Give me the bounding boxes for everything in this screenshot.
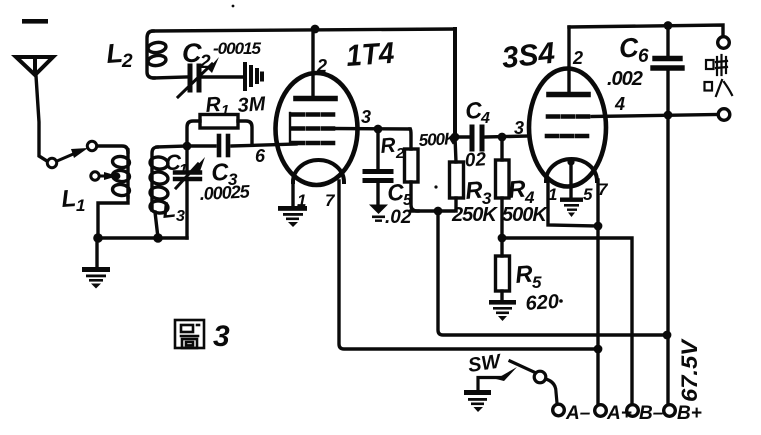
- V2 filament dome: [546, 159, 597, 181]
- svg-text:3: 3: [213, 320, 230, 353]
- svg-text:500K: 500K: [502, 204, 548, 226]
- label pin 2 of V2: [572, 48, 583, 68]
- switch S1 arm with arrowhead: [57, 152, 78, 161]
- svg-text:4: 4: [480, 110, 490, 127]
- label pin 3: [361, 107, 371, 127]
- switch SW arm: [510, 361, 534, 372]
- node R4/R5 junction: [498, 234, 507, 243]
- label C4: [464, 97, 490, 127]
- wire rail corner down to C4 node: [453, 29, 457, 135]
- svg-text:R: R: [379, 134, 397, 158]
- label SW: [467, 350, 504, 377]
- V1 internal grid tie: [289, 113, 291, 144]
- svg-text:6: 6: [255, 146, 266, 166]
- label L3: [161, 197, 185, 225]
- node C6 top junction: [664, 21, 673, 30]
- label C5 value .02: [385, 207, 412, 228]
- wire SW to A- terminal: [546, 379, 557, 403]
- switch SW fixed contact arrow: [496, 367, 517, 381]
- svg-text:1: 1: [179, 161, 187, 178]
- svg-text:5: 5: [532, 273, 542, 292]
- svg-text:3M: 3M: [237, 93, 268, 117]
- label 67.5V: [677, 338, 702, 402]
- label C3 value .00025: [199, 181, 251, 204]
- svg-text:2: 2: [121, 51, 133, 72]
- terminal B-: [627, 405, 639, 417]
- svg-text:A+: A+: [606, 403, 632, 424]
- svg-text:B–: B–: [639, 403, 664, 424]
- V2 grid dashes row: [547, 134, 588, 139]
- wire bias bus down and right to B+ node: [438, 211, 667, 335]
- ground V2 pin5: [560, 198, 583, 218]
- terminal A-: [553, 404, 565, 416]
- V1 grid dashes row1: [293, 112, 333, 117]
- loudspeaker glyph (喇叭): [705, 55, 733, 96]
- resistor R3: [450, 137, 464, 211]
- resistor R4: [496, 137, 510, 238]
- wire C1 arrow: [176, 164, 198, 188]
- svg-text:1T4: 1T4: [345, 37, 395, 73]
- terminal phone bottom: [718, 109, 730, 121]
- node A+ / filament junction: [594, 345, 603, 354]
- svg-text:C: C: [182, 38, 202, 68]
- wire L1 bottom to ground bus: [98, 197, 128, 238]
- label C1: [165, 150, 187, 178]
- wire V1 pin1 lead: [291, 181, 294, 206]
- wire V1 pin3 (row2) to node 3: [333, 127, 410, 131]
- label R2: [379, 134, 405, 162]
- wire top-right rail (V2 plate to phones): [569, 25, 723, 36]
- ground (sideways) after C2: [245, 64, 262, 89]
- V2 plate bar: [549, 92, 588, 98]
- V1 grid dashes row3: [293, 141, 333, 146]
- svg-text:.00025: .00025: [199, 181, 251, 204]
- svg-text:B+: B+: [677, 403, 702, 424]
- label C5: [386, 179, 413, 209]
- V2 screen dashes row: [548, 114, 592, 119]
- resistor R2: [405, 129, 419, 211]
- wire grid junction to C3: [187, 144, 215, 147]
- svg-text:3: 3: [361, 107, 371, 127]
- V1 filament dome: [293, 160, 344, 182]
- svg-text:-00015: -00015: [213, 39, 261, 58]
- node C6 bottom junction: [664, 111, 673, 120]
- label L2: [105, 38, 133, 72]
- wire ground bus drop: [95, 238, 98, 267]
- labels pins 1 7 of V1: [297, 191, 336, 210]
- wire C4 node to plates: [455, 135, 469, 138]
- svg-text:1: 1: [76, 196, 85, 215]
- wire V2 pin4 screen line to phone bottom: [592, 115, 718, 117]
- node C4 right junction: [498, 133, 507, 142]
- svg-text:3S4: 3S4: [500, 37, 556, 75]
- node grid junction: [183, 142, 192, 151]
- svg-text:2: 2: [572, 48, 583, 68]
- terminal B+: [664, 405, 676, 417]
- wire L2 bottom to C2: [154, 77, 186, 78]
- svg-text:3: 3: [514, 118, 524, 138]
- wire C4 to V2 grid: [486, 136, 529, 137]
- wire R2 bottom to R3 bottom: [411, 209, 453, 212]
- capacitor C1 (variable tuning): [185, 146, 188, 170]
- labels battery terminals: [565, 403, 702, 424]
- wire antenna stem: [36, 76, 47, 161]
- label 1T4: [345, 37, 395, 73]
- svg-text:2: 2: [395, 145, 405, 162]
- label R4: [507, 176, 535, 207]
- svg-text:L: L: [161, 197, 177, 223]
- labels pins 1 5 7 of V2: [548, 180, 609, 204]
- label pin 2: [316, 56, 327, 76]
- capacitor C4: [472, 127, 482, 149]
- terminal A+: [595, 405, 607, 417]
- node L3 ground junction: [153, 233, 163, 243]
- resistor R1: [187, 115, 252, 146]
- svg-text:2: 2: [199, 52, 211, 73]
- label C3: [210, 159, 238, 189]
- switch SW pivot circle: [534, 371, 546, 383]
- svg-text:SW: SW: [467, 350, 504, 377]
- switch S1 contact circles: [47, 141, 96, 167]
- capacitor C2 (variable): [190, 66, 199, 90]
- svg-text:.02: .02: [385, 207, 412, 228]
- svg-text:1: 1: [221, 102, 229, 119]
- svg-text:R: R: [205, 93, 223, 117]
- svg-text:.002: .002: [607, 68, 643, 90]
- node plate rail to V1 pin2 junction: [311, 25, 320, 34]
- wire junction to B- corner: [502, 238, 632, 404]
- svg-text:250K: 250K: [451, 204, 498, 226]
- wire B+ vertical: [666, 115, 669, 404]
- wire C3 to V1 pin6: [232, 144, 296, 146]
- capacitor C3: [219, 136, 228, 155]
- ground C5: [369, 205, 388, 222]
- wire top-left plate rail: [153, 29, 455, 31]
- wire switch to L1 top: [97, 146, 128, 152]
- coil L2: [147, 31, 167, 78]
- svg-text:7: 7: [325, 191, 336, 210]
- label L1: [61, 185, 86, 215]
- ground main (left): [82, 267, 110, 289]
- label pin 3 of V2: [514, 118, 524, 138]
- svg-text:6: 6: [638, 46, 649, 67]
- ground V1 pin1: [278, 206, 307, 227]
- label C6 value .002: [607, 68, 643, 90]
- svg-text:2: 2: [316, 56, 327, 76]
- label R5: [514, 261, 542, 292]
- stray scan mark top-left: [22, 19, 48, 24]
- wire V2 pin5 filament center tap: [569, 161, 572, 198]
- capacitor C6: [666, 26, 669, 56]
- node bias bus junction: [434, 207, 443, 216]
- svg-text:67.5V: 67.5V: [677, 338, 702, 402]
- label R3 value 250K: [451, 204, 498, 226]
- label pin 6: [255, 146, 266, 166]
- wire tuned-circuit top (L3 to grid junction to C3): [157, 146, 187, 147]
- wire C2 arrow: [178, 64, 212, 97]
- wire L3 bottom lead: [155, 212, 158, 238]
- node L1 ground junction: [93, 233, 103, 243]
- wire V2 pin7 filament leg down to A+: [596, 180, 599, 404]
- svg-text:A–: A–: [565, 403, 591, 424]
- label R5 value 620: [525, 291, 560, 315]
- label R4 value 500K: [502, 204, 548, 226]
- coil L1: [112, 150, 130, 197]
- resistor R5: [496, 238, 510, 301]
- label C2: [182, 38, 211, 73]
- wire C2 to side ground: [203, 75, 243, 78]
- svg-text:5: 5: [583, 185, 593, 204]
- label pin 4 of V2: [614, 94, 625, 114]
- node 3 junction: [374, 125, 383, 134]
- wire ground bus bottom-left: [98, 236, 187, 239]
- coil L3: [149, 147, 168, 214]
- switch L1 tap (circle and arrow): [91, 172, 106, 180]
- vacuum tube V2 3S4 envelope: [529, 69, 606, 187]
- svg-text:1: 1: [297, 191, 306, 210]
- node C4 left junction: [451, 133, 460, 142]
- wire V1 pin2 drop: [311, 29, 314, 97]
- wire V2 pin2 drop from right rail: [567, 27, 570, 94]
- ground SW: [464, 390, 491, 412]
- V1 grid dashes row2: [293, 126, 333, 131]
- label C4 value .02: [458, 149, 487, 172]
- label R3: [464, 177, 492, 208]
- vacuum tube V1 1T4 envelope: [276, 73, 358, 185]
- wire V2 pin1 filament leg: [548, 180, 598, 226]
- svg-text:3: 3: [176, 208, 185, 225]
- capacitor C5: [376, 129, 379, 169]
- label R1: [205, 93, 268, 119]
- label 500K (R2 value): [418, 129, 458, 150]
- svg-text:620: 620: [525, 291, 560, 315]
- V1 plate bar: [296, 96, 335, 102]
- antenna: [16, 57, 53, 75]
- stray dot: [232, 5, 563, 303]
- terminal phone top: [718, 37, 730, 49]
- node filament junction: [594, 222, 603, 231]
- wire V1 pin7 filament down and right to A+ line: [339, 181, 598, 349]
- ground R5: [489, 300, 516, 321]
- svg-text:4: 4: [614, 94, 625, 114]
- figure label 圖 3: [175, 320, 204, 348]
- label C2 value .00015: [213, 39, 261, 58]
- label 3S4: [500, 37, 556, 75]
- svg-text:L: L: [61, 185, 78, 213]
- label C6: [617, 32, 649, 67]
- node B+ bus junction: [663, 331, 672, 340]
